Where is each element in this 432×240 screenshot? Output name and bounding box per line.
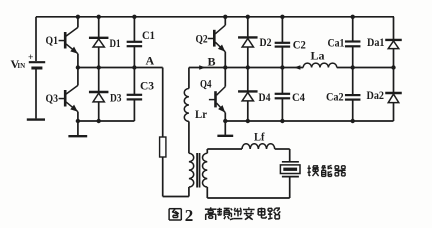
svg-text:IN: IN xyxy=(17,62,25,70)
svg-text:Da2: Da2 xyxy=(367,88,385,102)
svg-text:Ca1: Ca1 xyxy=(328,36,345,50)
svg-text:2: 2 xyxy=(185,206,194,225)
svg-text:Lf: Lf xyxy=(254,130,265,144)
svg-text:A: A xyxy=(146,54,155,68)
svg-text:C2: C2 xyxy=(293,38,306,52)
svg-text:Da1: Da1 xyxy=(367,35,385,49)
svg-text:Q2: Q2 xyxy=(196,32,208,46)
svg-text:C3: C3 xyxy=(140,79,154,93)
svg-text:Ca2: Ca2 xyxy=(326,90,344,104)
svg-text:Q4: Q4 xyxy=(200,77,212,91)
svg-text:C4: C4 xyxy=(292,90,305,104)
svg-text:Q1: Q1 xyxy=(46,33,59,47)
svg-text:D1: D1 xyxy=(110,36,121,50)
svg-text:+: + xyxy=(28,53,33,63)
svg-text:D3: D3 xyxy=(110,91,122,105)
svg-text:La: La xyxy=(311,48,325,62)
svg-text:C1: C1 xyxy=(142,28,155,42)
svg-text:D4: D4 xyxy=(259,90,271,104)
svg-text:Q3: Q3 xyxy=(46,91,59,105)
svg-text:D2: D2 xyxy=(260,35,272,49)
svg-text:B: B xyxy=(208,55,216,69)
svg-text:Lr: Lr xyxy=(195,107,208,121)
